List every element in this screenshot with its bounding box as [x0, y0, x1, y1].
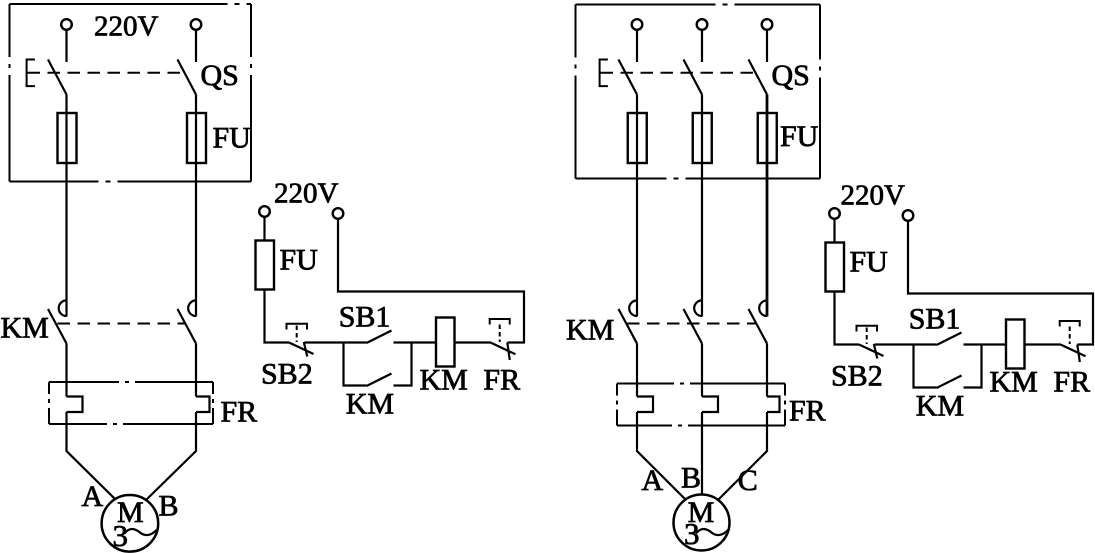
- wire terminal to QS pole2: [701, 30, 703, 62]
- svg-text:KM: KM: [346, 388, 394, 421]
- terminal L1: [61, 19, 72, 30]
- wire QS to fuse col2: [195, 95, 197, 317]
- terminal L1 right: [632, 19, 643, 30]
- coil KM: [436, 318, 455, 367]
- enclosure box (dash-dot) right main: [576, 5, 821, 179]
- QS handle bracket: [27, 60, 35, 87]
- svg-text:220V: 220V: [94, 11, 159, 43]
- svg-text:KM: KM: [916, 390, 964, 423]
- coil KM right: [1006, 320, 1025, 369]
- KM main contact col3 arc right: [759, 300, 767, 316]
- SB2 stop bar: [304, 342, 308, 357]
- fuse FU control: [256, 241, 275, 290]
- wire QS to KM col3: [766, 95, 769, 317]
- FR actuator stem (dashed): [499, 325, 501, 343]
- FR heater col1: [67, 397, 83, 413]
- wire FR to motor phase A right: [637, 412, 686, 500]
- KM mechanical link (dashed): [58, 323, 187, 325]
- SB2 actuator stem right (dashed): [866, 328, 868, 345]
- svg-text:SB2: SB2: [261, 358, 313, 391]
- terminal L2: [191, 19, 202, 30]
- control terminal 1: [259, 206, 270, 217]
- fuse FU col2 right: [693, 113, 712, 163]
- fuse FU col3 right: [758, 113, 777, 163]
- enclosure box (dash-dot) left main: [10, 4, 252, 182]
- wire QS to KM col1: [636, 95, 638, 317]
- wire FR to motor phase C right: [718, 412, 767, 500]
- FR box (dash-dot) right: [617, 384, 785, 426]
- KM aux branch return wire right: [964, 345, 982, 388]
- SB1 NO blade: [367, 331, 392, 344]
- wire KM to FR col2: [195, 344, 197, 397]
- svg-text:KM: KM: [990, 366, 1038, 399]
- KM aux contact branch wires right: [914, 345, 937, 388]
- wire terminal to QS pole3: [766, 30, 768, 62]
- FR trip bracket right: [1060, 321, 1080, 327]
- svg-text:FU: FU: [280, 244, 319, 277]
- motor M2 circle: [674, 495, 730, 551]
- svg-text:B: B: [681, 462, 701, 495]
- svg-text:FR: FR: [221, 396, 258, 429]
- svg-text:KM: KM: [420, 364, 468, 397]
- svg-text:FR: FR: [1053, 366, 1090, 399]
- wire KM to FR col3 right: [766, 344, 768, 397]
- KM main contact col1 arc right: [629, 300, 637, 316]
- svg-text:220V: 220V: [274, 177, 339, 209]
- wire KM to FR col2 right: [701, 344, 703, 397]
- svg-text:FU: FU: [850, 246, 889, 279]
- KM main contact col2 blade: [178, 309, 197, 344]
- wire KM to FR col1 right: [636, 344, 638, 397]
- wire FR to motor phase A: [67, 412, 116, 499]
- wire SB2 to SB1: [305, 341, 367, 343]
- svg-text:A: A: [82, 480, 104, 513]
- wire terminal1 to fuse right: [833, 219, 835, 243]
- switch QS pole2 blade right: [684, 60, 703, 95]
- fuse FU col2: [187, 113, 206, 163]
- svg-text:FR: FR: [789, 394, 826, 427]
- control terminal 1 right: [829, 208, 840, 219]
- switch QS pole1 blade right: [619, 60, 638, 95]
- FR stop bar right: [1077, 345, 1080, 363]
- svg-text:KM: KM: [566, 314, 614, 347]
- SB2 actuator stem (dashed): [296, 326, 298, 343]
- SB2 NC blade: [289, 343, 314, 355]
- FR NC blade: [491, 343, 516, 355]
- motor M2 tilde: [696, 529, 728, 535]
- wire FR to motor phase B: [146, 412, 196, 500]
- FR stop bar: [507, 343, 510, 361]
- wire QS to fuse col1: [65, 95, 67, 317]
- svg-text:B: B: [159, 490, 179, 523]
- QS mechanical link (dashed): [28, 72, 185, 74]
- svg-text:SB1: SB1: [339, 301, 391, 334]
- KM main contact col1 blade: [48, 309, 67, 344]
- SB2 stop bar right: [874, 344, 878, 359]
- svg-text:SB2: SB2: [831, 360, 883, 393]
- SB2 button cap right: [857, 326, 878, 332]
- KM aux contact branch wires: [344, 343, 367, 386]
- KM main contact col1 blade right: [619, 309, 638, 344]
- wire SB1 to coil right: [964, 343, 1007, 345]
- wire terminal L2 down: [195, 30, 197, 62]
- wire KM to FR col1: [65, 344, 67, 397]
- motor M1 circle: [102, 495, 159, 552]
- wire coil to FR contact right: [1025, 343, 1062, 345]
- switch QS pole 2 blade: [178, 60, 197, 95]
- switch QS pole 1 blade: [48, 60, 67, 95]
- FR heater col2: [196, 397, 210, 413]
- QS handle bracket right: [600, 60, 608, 87]
- svg-text:FR: FR: [483, 364, 520, 397]
- KM main contact col2 blade right: [684, 309, 703, 344]
- fuse FU col1: [58, 113, 77, 163]
- svg-text:3: 3: [113, 518, 129, 553]
- wire QS to KM col2: [701, 95, 703, 317]
- wire FR to motor phase B right (straight): [701, 412, 703, 495]
- wire coil to FR contact: [455, 341, 492, 343]
- control terminal 2 right: [903, 210, 914, 221]
- KM mechanical link right (dashed): [627, 323, 756, 325]
- FR NC blade right: [1061, 345, 1086, 357]
- svg-text:QS: QS: [201, 59, 239, 92]
- wire terminal1 to fuse: [263, 217, 265, 241]
- terminal L2 right: [697, 19, 708, 30]
- svg-text:FU: FU: [213, 122, 252, 155]
- KM aux NO blade: [367, 374, 392, 387]
- FR heater col2 right: [702, 397, 718, 413]
- SB1 NO blade right: [937, 333, 962, 346]
- svg-text:SB1: SB1: [909, 303, 961, 336]
- svg-text:C: C: [738, 464, 758, 497]
- wire terminal L1 down: [65, 30, 67, 62]
- svg-text:FU: FU: [780, 120, 819, 153]
- wire terminal to QS pole1: [636, 30, 638, 62]
- control return wire: [338, 219, 524, 343]
- wire fuse to SB2 right: [835, 292, 860, 345]
- KM aux NO blade right: [937, 376, 962, 389]
- KM main contact col3 blade right: [749, 309, 768, 344]
- KM main contact col1 arc: [59, 300, 67, 316]
- FR heater col1 right: [637, 397, 653, 413]
- control terminal 2: [333, 208, 344, 219]
- KM main contact col2 arc: [188, 300, 196, 316]
- SB2 NC blade right: [859, 345, 884, 357]
- wire SB1 to coil: [394, 341, 437, 343]
- switch QS pole3 blade right: [749, 60, 768, 95]
- FR box (dash-dot) left: [49, 382, 213, 424]
- motor M1 tilde: [125, 529, 157, 535]
- terminal L3 right: [762, 19, 773, 30]
- SB2 button cap: [287, 324, 308, 330]
- svg-text:QS: QS: [772, 59, 810, 92]
- FR actuator stem right (dashed): [1069, 327, 1071, 345]
- wire fuse to SB2: [265, 290, 290, 343]
- KM main contact col2 arc right: [694, 300, 702, 316]
- fuse FU col1 right: [628, 113, 647, 163]
- svg-text:A: A: [642, 464, 664, 497]
- wire SB2 to SB1 right: [875, 343, 937, 345]
- control return wire right: [908, 221, 1093, 345]
- QS mechanical link right (dashed): [601, 72, 756, 74]
- fuse FU control right: [826, 243, 845, 292]
- svg-text:220V: 220V: [841, 179, 906, 211]
- KM aux branch return wire: [394, 343, 412, 386]
- svg-text:KM: KM: [1, 312, 49, 345]
- FR heater col3 right: [767, 397, 780, 413]
- FR trip bracket: [490, 319, 510, 325]
